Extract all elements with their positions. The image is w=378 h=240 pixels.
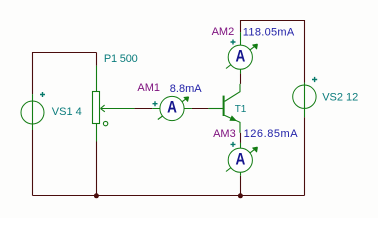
AM2 plus sign [231, 40, 236, 45]
svg-text:118.05mA: 118.05mA [243, 26, 295, 38]
wire AM1 to T1 base [192, 108, 209, 110]
svg-text:VS2 12: VS2 12 [322, 92, 358, 104]
svg-text:VS1 4: VS1 4 [52, 106, 82, 118]
wire bottom rail [33, 195, 305, 197]
wire AM2 top / top rail / VS2 top [241, 21, 305, 83]
voltage source VS2 [293, 83, 316, 118]
svg-text:T1: T1 [235, 104, 247, 115]
svg-text:8.8mA: 8.8mA [170, 83, 202, 95]
svg-text:A: A [167, 99, 177, 117]
wire pot top [96, 53, 98, 66]
junction dot at pot bottom [94, 193, 99, 198]
junction dot at AM3 bottom [238, 193, 243, 198]
wire VS2 bottom [304, 117, 306, 195]
wire top-left loop [33, 53, 97, 95]
ammeter AM3 [226, 143, 257, 176]
svg-text:AM3: AM3 [213, 128, 236, 140]
wire AM2 to collector [240, 74, 242, 84]
wire wiper to AM1 [134, 108, 152, 110]
svg-text:P1 500: P1 500 [104, 53, 138, 65]
wire pot bottom [96, 142, 98, 196]
potentiometer P1 [93, 66, 135, 142]
AM1 plus sign [153, 101, 158, 106]
svg-text:AM2: AM2 [212, 26, 235, 38]
wire emitter to AM3 [240, 133, 242, 143]
svg-text:A: A [236, 150, 246, 168]
voltage source VS1 [21, 94, 44, 130]
svg-text:A: A [236, 47, 246, 65]
transistor T1 [208, 84, 240, 133]
VS1 plus sign [40, 92, 45, 97]
svg-text:126.85mA: 126.85mA [244, 128, 299, 140]
svg-text:AM1: AM1 [137, 82, 160, 94]
wire AM3 bottom [240, 176, 242, 196]
ammeter AM1 [152, 96, 192, 120]
ammeter AM2 [226, 32, 257, 73]
wire VS1 bottom [32, 130, 34, 196]
AM3 plus sign [231, 142, 236, 147]
VS2 plus sign [312, 77, 317, 82]
